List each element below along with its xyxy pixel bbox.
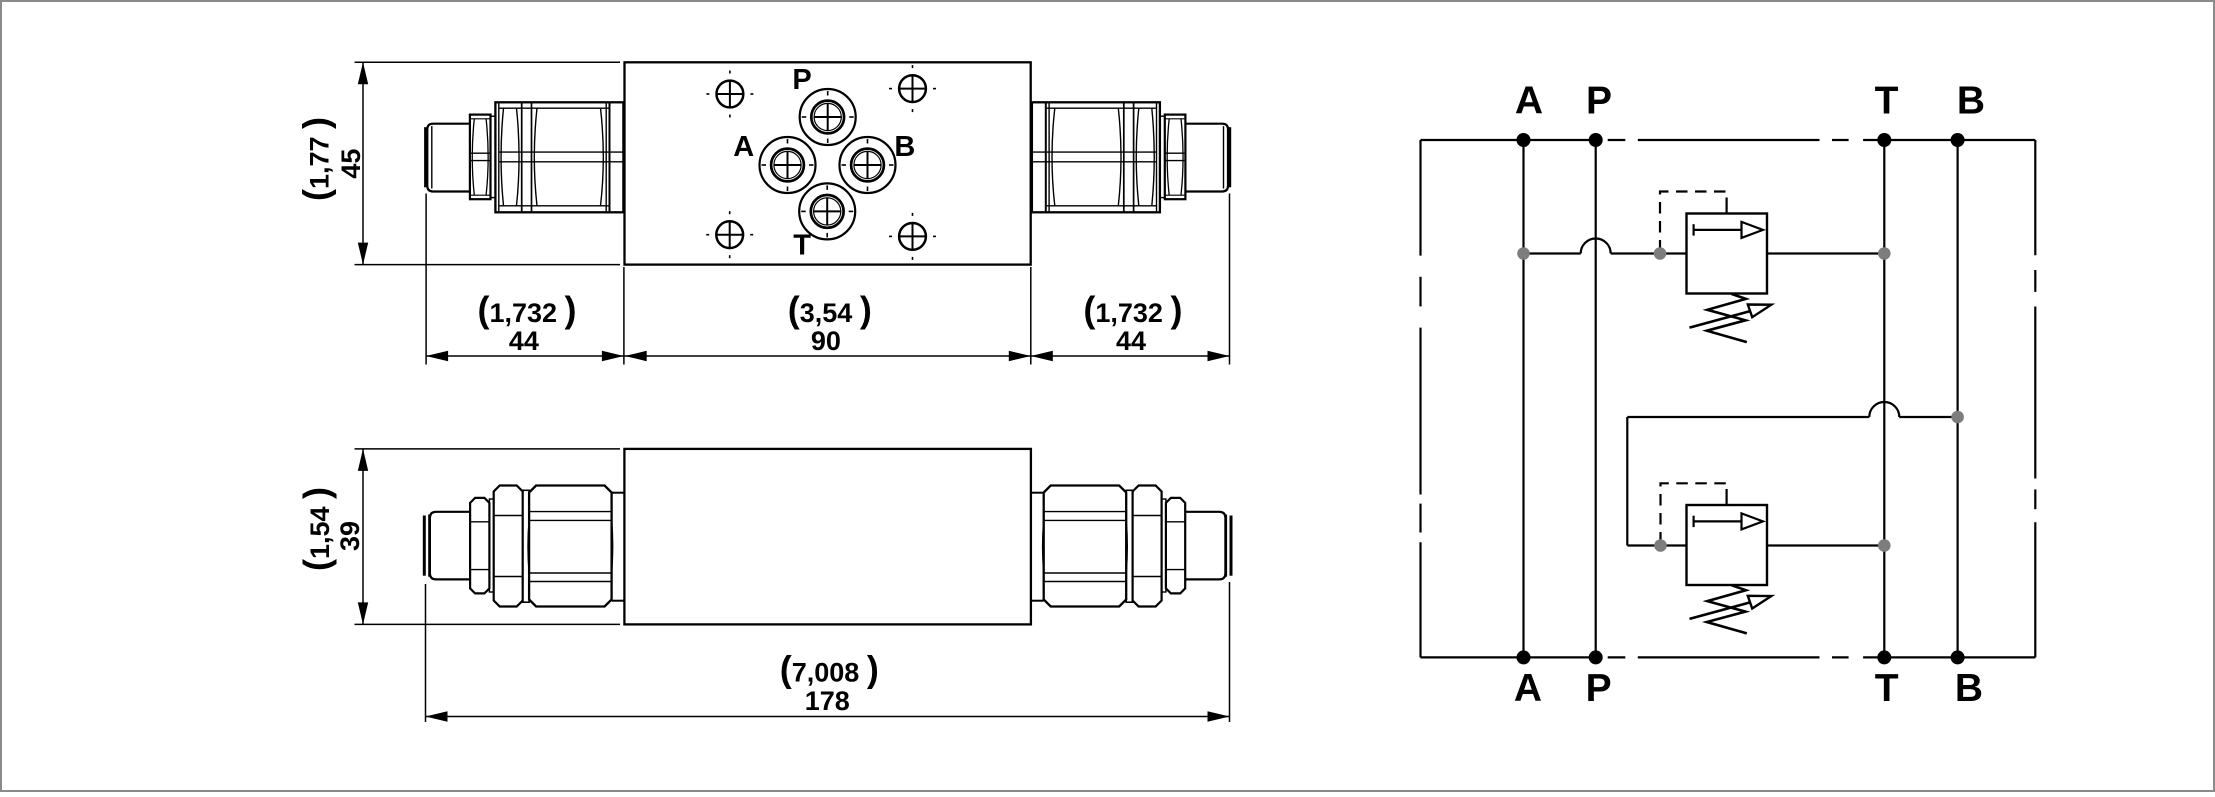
svg-text:B: B: [894, 131, 915, 163]
svg-text:T: T: [1875, 667, 1899, 710]
svg-text:90: 90: [811, 326, 841, 356]
svg-text:T: T: [793, 229, 811, 261]
svg-text:A: A: [1515, 80, 1543, 123]
svg-text:B: B: [1957, 80, 1985, 123]
svg-text:B: B: [1955, 667, 1983, 710]
svg-text:P: P: [1586, 667, 1612, 710]
svg-text:39: 39: [335, 521, 365, 551]
svg-text:T: T: [1875, 80, 1899, 123]
svg-text:44: 44: [1116, 326, 1146, 356]
svg-text:178: 178: [805, 686, 850, 716]
svg-text:A: A: [733, 131, 754, 163]
svg-text:P: P: [1586, 80, 1612, 123]
svg-text:P: P: [792, 64, 811, 96]
svg-text:45: 45: [336, 149, 366, 179]
svg-text:44: 44: [509, 326, 539, 356]
svg-text:A: A: [1514, 667, 1542, 710]
